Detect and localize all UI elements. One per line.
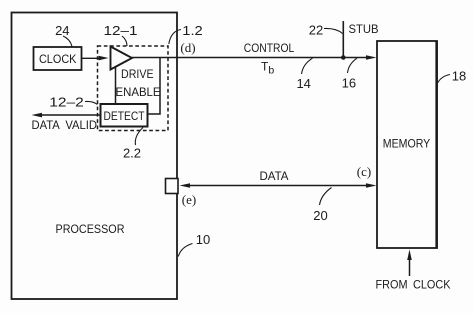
wire clock to driver <box>82 57 100 59</box>
svg-text:1.2: 1.2 <box>182 23 203 38</box>
svg-text:DATA VALID: DATA VALID <box>32 118 98 132</box>
stub junction node <box>341 55 346 60</box>
data bus wire 20 <box>188 185 368 187</box>
data port box on processor edge <box>166 179 179 194</box>
svg-text:12–2: 12–2 <box>49 95 84 110</box>
svg-text:2.2: 2.2 <box>123 146 141 161</box>
svg-text:DETECT: DETECT <box>104 109 146 123</box>
svg-text:CLOCK: CLOCK <box>39 52 77 66</box>
svg-text:20: 20 <box>313 208 327 223</box>
svg-text:PROCESSOR: PROCESSOR <box>56 222 125 236</box>
svg-text:DRIVE: DRIVE <box>121 67 154 81</box>
svg-text:DATA: DATA <box>260 169 289 183</box>
svg-text:ENABLE: ENABLE <box>116 85 161 99</box>
memory block 18 <box>377 41 437 248</box>
svg-text:STUB: STUB <box>349 22 379 36</box>
processor block 10 <box>12 13 178 300</box>
svg-text:18: 18 <box>452 69 466 84</box>
svg-text:FROM CLOCK: FROM CLOCK <box>376 278 451 292</box>
svg-text:MEMORY: MEMORY <box>383 137 431 151</box>
drive enable right wire <box>148 58 161 115</box>
clock box 24 <box>34 47 82 70</box>
driver buffer 12-1 (triangle) <box>111 47 133 70</box>
leader for 12-2 <box>85 101 97 104</box>
drive enable left wire <box>115 67 117 104</box>
stub wire 22 <box>342 21 344 58</box>
dashed driver/detect group 12 <box>98 46 169 131</box>
from clock wire <box>409 258 411 276</box>
svg-text:(d): (d) <box>180 40 195 55</box>
leader for 18 <box>437 75 450 85</box>
svg-text:14: 14 <box>296 76 310 91</box>
svg-text:16: 16 <box>342 76 356 91</box>
leader for 16 <box>348 58 358 73</box>
leader for 1.2 <box>169 30 181 45</box>
leader for 10 <box>178 244 192 257</box>
leader for 2.2 <box>135 128 143 146</box>
leader for 22 <box>324 28 343 33</box>
svg-text:10: 10 <box>196 232 210 247</box>
svg-text:(e): (e) <box>182 192 196 207</box>
leader for 20 <box>320 188 332 206</box>
svg-text:22: 22 <box>309 23 323 38</box>
leader for 14 <box>302 58 313 74</box>
svg-text:CONTROL: CONTROL <box>244 41 295 55</box>
svg-text:24: 24 <box>55 23 69 38</box>
data valid wire <box>41 114 101 116</box>
leader for 12-1 <box>122 36 127 46</box>
detect box 12-2 <box>101 104 148 127</box>
leader for 24 <box>63 36 72 47</box>
control wire Tb <box>132 57 367 59</box>
svg-text:(c): (c) <box>357 164 371 179</box>
svg-text:12–1: 12–1 <box>104 23 138 38</box>
